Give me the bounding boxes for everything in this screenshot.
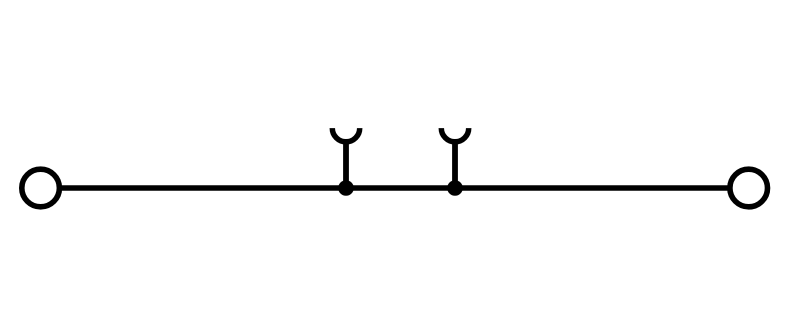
wire: main horizontal conductor bbox=[40, 185, 749, 191]
test socket 1 stem bbox=[343, 140, 349, 188]
test socket 1 (fork symbol) bbox=[332, 128, 359, 188]
test socket 2 stem bbox=[452, 140, 458, 188]
terminal circle left (clamping point) bbox=[22, 169, 60, 207]
test socket 2 (fork symbol) bbox=[441, 128, 468, 188]
junction dot 1 (node) bbox=[338, 180, 354, 196]
terminal circle right (clamping point) bbox=[730, 169, 768, 207]
test socket 1 cup bbox=[332, 128, 359, 142]
junction dot 2 (node) bbox=[447, 180, 463, 196]
test socket 2 cup bbox=[441, 128, 468, 142]
